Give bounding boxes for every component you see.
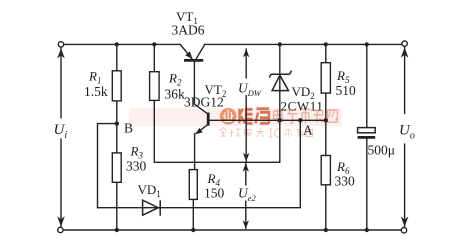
svg-text:3DG12: 3DG12 (184, 95, 224, 110)
svg-text:A: A (303, 123, 313, 138)
svg-text:2CW11: 2CW11 (281, 99, 324, 114)
svg-text:150: 150 (204, 186, 225, 201)
svg-text:B: B (124, 121, 133, 136)
svg-text:510: 510 (336, 83, 357, 98)
svg-text:330: 330 (126, 159, 147, 174)
svg-text:330: 330 (335, 174, 356, 189)
svg-text:500μ: 500μ (368, 143, 396, 158)
svg-text:36k: 36k (165, 87, 186, 102)
svg-text:1.5k: 1.5k (84, 84, 108, 99)
svg-text:3AD6: 3AD6 (172, 23, 205, 38)
